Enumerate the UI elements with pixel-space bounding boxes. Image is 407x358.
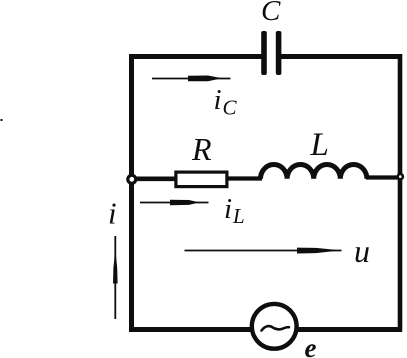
svg-text:C: C: [261, 0, 281, 27]
svg-text:u: u: [354, 233, 370, 269]
svg-text:R: R: [191, 131, 212, 167]
arrow iL: [140, 202, 209, 204]
svg-text:i: i: [224, 193, 232, 225]
wire right vertical: [398, 54, 403, 332]
wire bottom-right segment: [297, 327, 403, 332]
sine symbol: [262, 326, 290, 330]
wire top-left segment: [129, 54, 262, 59]
speck: [1, 119, 3, 121]
svg-text:C: C: [223, 96, 238, 120]
AC source e circle: [252, 304, 297, 349]
wire bottom-left segment: [129, 327, 252, 332]
svg-text:i: i: [214, 84, 222, 116]
node B right junction: [398, 174, 403, 179]
inductor L1: [261, 164, 367, 178]
wire left vertical: [129, 54, 134, 332]
resistor R1: [176, 172, 227, 187]
arrow i: [114, 236, 116, 319]
node A left junction: [128, 175, 136, 183]
svg-text:e: e: [305, 333, 317, 358]
capacitor C1 left plate: [261, 31, 267, 75]
svg-text:L: L: [232, 204, 245, 228]
svg-text:L: L: [310, 127, 329, 163]
arrow u: [185, 250, 342, 252]
wire middle left segment: [133, 177, 176, 182]
wire middle between R and L: [229, 176, 263, 180]
wire middle right segment: [366, 175, 402, 179]
arrow iC: [152, 78, 231, 80]
svg-text:i: i: [108, 196, 117, 231]
wire top-right segment: [281, 54, 402, 59]
capacitor C1 right plate: [276, 31, 282, 75]
